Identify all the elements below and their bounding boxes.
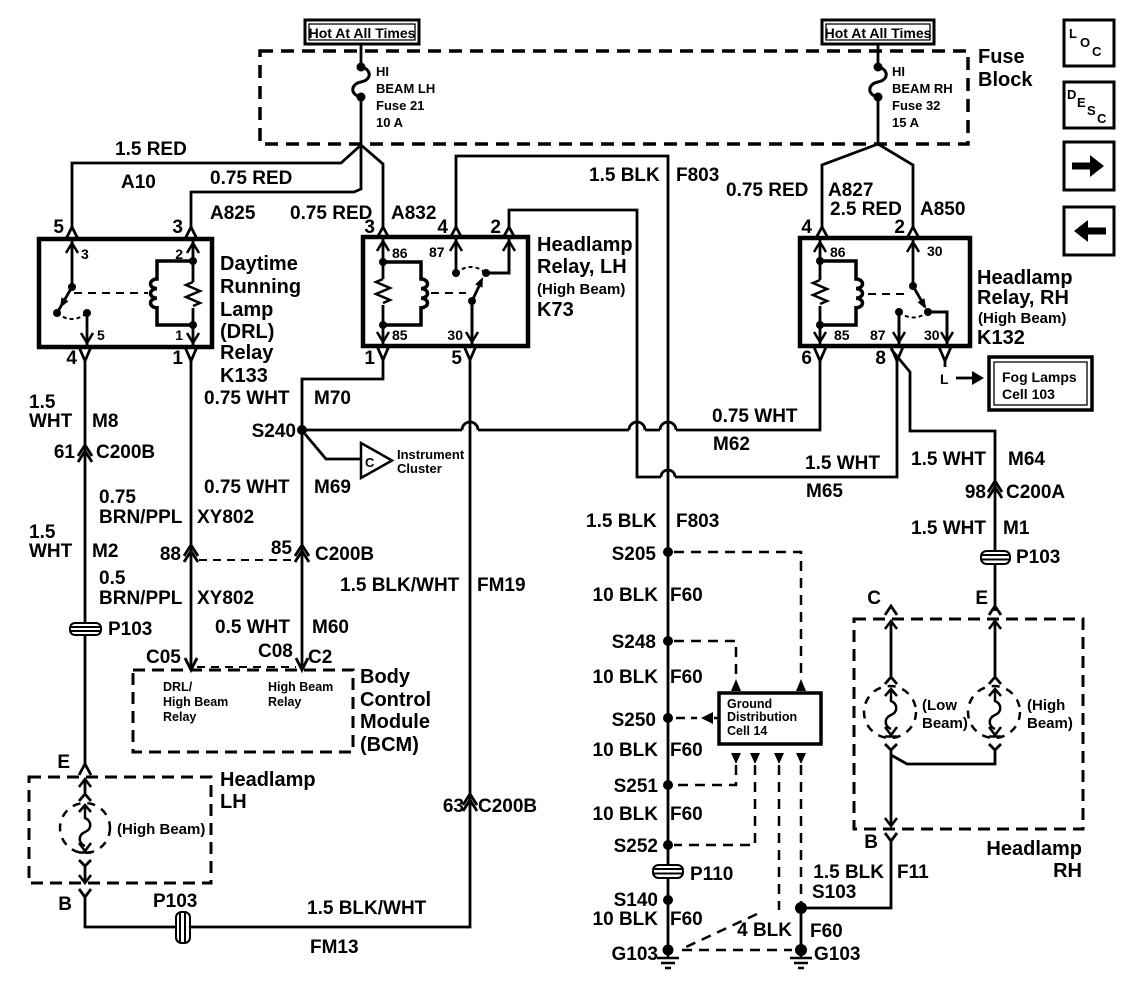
svg-text:C200B: C200B <box>315 544 374 565</box>
svg-text:P103: P103 <box>108 619 152 640</box>
svg-text:10 BLK: 10 BLK <box>593 804 659 825</box>
wire A832 (0.75 RED) to K73 pin 3 <box>361 145 383 227</box>
svg-text:C200B: C200B <box>478 796 537 817</box>
svg-text:P110: P110 <box>690 864 733 885</box>
dashed wire ground dist to S251 <box>674 765 736 785</box>
svg-text:M1: M1 <box>1003 518 1030 539</box>
svg-text:High Beam: High Beam <box>268 680 333 694</box>
svg-text:HI: HI <box>376 64 389 79</box>
svg-text:Distribution: Distribution <box>727 710 797 724</box>
bulb RH high chevron bottom <box>989 744 1001 750</box>
connector C200B pin88 double chevron <box>184 545 198 562</box>
K73 coil branch vertical (86-85) <box>382 239 385 344</box>
dashed wire ground dist to G103 left <box>686 765 779 947</box>
connector C200B pin61 double chevron <box>78 445 92 462</box>
K73 switch output wire pin5 internal <box>471 301 474 344</box>
K73 coil <box>383 262 428 325</box>
svg-text:8: 8 <box>875 348 886 369</box>
node pin6 chevron K132 (bottom) <box>814 347 826 361</box>
svg-text:BRN/PPL: BRN/PPL <box>99 507 183 528</box>
svg-text:FM13: FM13 <box>310 937 359 958</box>
svg-text:C05: C05 <box>146 647 181 668</box>
svg-text:1.5 BLK/WHT: 1.5 BLK/WHT <box>340 575 460 596</box>
node pin2 chevron K132 <box>907 227 919 238</box>
svg-text:K133: K133 <box>220 365 268 387</box>
node S103 <box>795 902 807 914</box>
svg-text:S248: S248 <box>612 632 656 653</box>
label Daytime Running Lamp (DRL) Relay K133 <box>220 253 301 387</box>
K132 switch contacts <box>895 308 903 316</box>
svg-text:1: 1 <box>364 348 375 369</box>
bulb RH low beam: entry wire <box>890 621 893 677</box>
label Body Control Module (BCM) <box>360 666 431 756</box>
svg-text:1.5: 1.5 <box>29 522 56 543</box>
svg-text:1.5 RED: 1.5 RED <box>115 139 187 160</box>
svg-text:F60: F60 <box>810 921 843 942</box>
grommet P103 (left) <box>70 623 101 635</box>
bulb RH low chevron top <box>885 677 897 684</box>
node S248 <box>663 636 673 646</box>
svg-text:A10: A10 <box>121 172 156 193</box>
svg-text:P103: P103 <box>153 891 197 912</box>
wire F803 top (K73 pin4 up and over) <box>456 156 668 950</box>
K133 switch throw arc (dashed) <box>57 313 87 319</box>
node S251 <box>663 780 673 790</box>
svg-text:(High Beam): (High Beam) <box>978 310 1066 327</box>
svg-text:BEAM LH: BEAM LH <box>376 81 435 96</box>
svg-text:Relay: Relay <box>220 342 274 364</box>
svg-text:K73: K73 <box>537 299 574 321</box>
svg-text:Headlamp: Headlamp <box>977 267 1073 289</box>
relay K133 box <box>39 239 212 347</box>
svg-text:0.75 RED: 0.75 RED <box>726 180 808 201</box>
svg-text:0.75 WHT: 0.75 WHT <box>204 477 290 498</box>
wire jumper low-high bulbs <box>891 750 995 764</box>
hop M62 over F803 wire <box>660 422 676 430</box>
svg-text:C2: C2 <box>308 647 332 668</box>
bulb LH exit wire <box>84 866 87 882</box>
svg-text:63: 63 <box>443 796 464 817</box>
node S250 <box>663 713 673 723</box>
dashed wire ground dist to S252 <box>674 765 755 845</box>
svg-text:HI: HI <box>892 64 905 79</box>
K132 switch arm <box>913 286 925 307</box>
K133 external pin number labels <box>53 217 183 369</box>
svg-text:WHT: WHT <box>29 541 73 562</box>
svg-text:(DRL): (DRL) <box>220 321 274 343</box>
svg-text:2.5 RED: 2.5 RED <box>830 199 902 220</box>
svg-text:C: C <box>1097 111 1107 126</box>
svg-text:BEAM RH: BEAM RH <box>892 81 953 96</box>
svg-text:F60: F60 <box>670 804 703 825</box>
bulb RH high filament <box>990 689 1001 729</box>
svg-text:86: 86 <box>830 244 846 260</box>
K73 internal labels 86 85 87 30 <box>392 244 463 343</box>
grommet P103 (FM13, vertical) <box>176 912 190 943</box>
svg-text:2: 2 <box>894 217 905 238</box>
K73 resistor <box>376 279 390 303</box>
svg-text:P103: P103 <box>1016 547 1060 568</box>
svg-text:Lamp: Lamp <box>220 299 273 321</box>
svg-text:4: 4 <box>66 348 77 369</box>
node pin5 chevron K133 <box>66 227 78 239</box>
svg-text:5: 5 <box>97 327 105 343</box>
bulb RH low chevron bottom <box>885 744 897 750</box>
svg-text:O: O <box>1080 35 1090 50</box>
wire K73 pin2 over and down to M65 <box>509 210 897 477</box>
svg-text:98: 98 <box>965 482 986 503</box>
K132 coil branch vertical (86-85) <box>819 240 822 344</box>
svg-text:0.5 WHT: 0.5 WHT <box>215 617 290 638</box>
bulb RH high beam: entry wire <box>994 621 997 677</box>
bulb LH filament <box>80 806 91 846</box>
K132 internal labels 86 85 87 30 30 <box>830 243 943 343</box>
svg-text:Running: Running <box>220 276 301 298</box>
svg-text:Fuse 21: Fuse 21 <box>376 98 424 113</box>
K133 internal pin labels <box>81 246 183 343</box>
wire M62 (0.75 WHT) S240 to K132 pin6 <box>302 361 820 430</box>
svg-text:Headlamp: Headlamp <box>986 838 1082 860</box>
svg-text:1.5 WHT: 1.5 WHT <box>911 449 986 470</box>
node S240 <box>297 425 307 435</box>
dashed link C05-C2 <box>197 666 296 668</box>
fog lamps cell 103 box <box>989 357 1092 410</box>
svg-text:4 BLK: 4 BLK <box>737 920 792 941</box>
node E chevron headlamp LH <box>79 764 91 775</box>
svg-text:E: E <box>975 588 988 609</box>
hot at all times box LH <box>305 20 419 44</box>
svg-text:Block: Block <box>978 69 1033 91</box>
label fuse 32 <box>892 64 953 130</box>
svg-text:4: 4 <box>801 217 812 238</box>
svg-text:Fuse 32: Fuse 32 <box>892 98 940 113</box>
bulb RH low filament <box>886 689 897 729</box>
K133 dashed actuation link <box>74 292 148 294</box>
svg-text:88: 88 <box>160 544 181 565</box>
svg-text:A832: A832 <box>391 203 436 224</box>
svg-text:85: 85 <box>392 327 408 343</box>
ground distribution cell 14 box <box>719 693 821 744</box>
svg-text:10 BLK: 10 BLK <box>593 909 659 930</box>
K73 external pin number labels <box>364 217 501 369</box>
instrument cluster triangle symbol <box>361 443 392 478</box>
K132 external pin number labels <box>801 217 905 369</box>
node C chevron headlamp RH <box>885 606 897 615</box>
svg-text:85: 85 <box>834 327 850 343</box>
svg-text:E: E <box>1077 95 1086 110</box>
svg-text:Fog Lamps: Fog Lamps <box>1002 369 1077 385</box>
svg-text:Body: Body <box>360 666 411 688</box>
svg-text:10 BLK: 10 BLK <box>593 585 659 606</box>
wire to instrument cluster <box>305 434 361 459</box>
node pin2 chevron K73 <box>503 227 515 238</box>
svg-text:High Beam: High Beam <box>163 695 228 709</box>
bulb RH high circle <box>968 686 1020 738</box>
svg-text:M60: M60 <box>312 617 349 638</box>
svg-text:(High: (High <box>1027 697 1065 714</box>
dashed ground link G103-G103 <box>682 949 792 952</box>
svg-text:F60: F60 <box>670 740 703 761</box>
svg-text:61: 61 <box>54 442 76 463</box>
svg-text:BRN/PPL: BRN/PPL <box>99 588 183 609</box>
svg-text:G103: G103 <box>814 944 860 965</box>
wire pin8 branch to M64 <box>891 349 995 611</box>
wire FM13 (1.5 BLK/WHT) headlamp LH B to K73 pin5 <box>85 361 470 927</box>
wire M8/M2 (1.5 WHT) K133 pin4 down to headlamp LH E <box>84 361 87 767</box>
relay K132 box <box>800 238 970 346</box>
svg-text:0.75: 0.75 <box>99 487 136 508</box>
svg-text:S103: S103 <box>812 882 856 903</box>
bulb RH low exit wire to B <box>890 750 893 825</box>
K73 switch common wire pin4 internal <box>455 239 458 273</box>
svg-text:FM19: FM19 <box>477 575 526 596</box>
svg-text:B: B <box>864 832 878 853</box>
svg-text:C: C <box>867 588 881 609</box>
K133 switch arm <box>57 287 72 313</box>
node S252 <box>663 840 673 850</box>
label (Low Beam) <box>922 697 968 732</box>
svg-text:(High Beam): (High Beam) <box>117 821 205 838</box>
svg-text:M69: M69 <box>314 477 351 498</box>
svg-text:1.5: 1.5 <box>29 392 56 413</box>
label (High Beam) RH <box>1027 697 1073 732</box>
svg-text:F803: F803 <box>676 511 719 532</box>
svg-text:S250: S250 <box>612 710 656 731</box>
K132 switch common wire pin2 internal <box>912 240 915 286</box>
svg-text:Instrument: Instrument <box>397 447 465 462</box>
svg-text:F60: F60 <box>670 585 703 606</box>
node S205 <box>663 547 673 557</box>
svg-text:0.75 RED: 0.75 RED <box>290 203 372 224</box>
svg-text:0.75 WHT: 0.75 WHT <box>204 388 290 409</box>
node pin1 chevron K133 (bottom) <box>185 347 197 361</box>
node pin3 chevron K73 <box>377 227 389 238</box>
relay K73 box <box>363 237 528 346</box>
fuse F21 (HI BEAM LH Fuse 21) <box>353 63 370 102</box>
svg-text:1.5 WHT: 1.5 WHT <box>805 453 880 474</box>
K73 switch arm <box>472 282 481 301</box>
svg-text:5: 5 <box>451 348 462 369</box>
svg-text:DRL/: DRL/ <box>163 680 193 694</box>
wire A850 (2.5 RED) to K132 pin 2 <box>878 144 913 227</box>
node pin1 chevron K73 (bottom) <box>377 346 389 360</box>
node pin8 chevron K132 (bottom, X) <box>891 347 903 361</box>
svg-text:Ground: Ground <box>727 697 772 711</box>
label fuse block <box>978 46 1033 91</box>
connector C200B pin63 double chevron <box>463 794 477 811</box>
node C2 chevron into BCM <box>296 658 308 670</box>
svg-text:Control: Control <box>360 689 431 711</box>
svg-text:XY802: XY802 <box>197 588 254 609</box>
K73 switch throw arc (dashed) <box>456 267 486 273</box>
node E chevron headlamp RH <box>989 606 1001 615</box>
bulb RH low circle <box>864 686 916 738</box>
label BCM internals <box>163 680 333 724</box>
svg-text:0.5: 0.5 <box>99 568 126 589</box>
label Headlamp Relay RH K132 <box>977 267 1073 349</box>
dashed connector link C200B <box>199 559 294 561</box>
svg-text:Module: Module <box>360 711 430 733</box>
svg-text:3: 3 <box>81 246 89 262</box>
svg-text:K132: K132 <box>977 327 1025 349</box>
svg-text:M64: M64 <box>1008 449 1045 470</box>
node pin3 chevron K133 <box>185 227 197 239</box>
K132 switch throw arc (dashed) <box>899 312 928 318</box>
svg-text:Hot At All Times: Hot At All Times <box>309 25 416 41</box>
K73 dashed actuation link <box>431 292 466 294</box>
bulb LH high beam: entry wire <box>84 779 87 793</box>
node pinY chevron K132 (bottom) <box>939 347 951 367</box>
wire A827 (0.75 RED) to K132 pin 4 <box>822 144 878 227</box>
fuse block dashed box <box>260 51 968 144</box>
svg-text:3: 3 <box>172 217 183 238</box>
svg-text:Cluster: Cluster <box>397 461 442 476</box>
label Headlamp RH <box>986 838 1082 882</box>
svg-text:A827: A827 <box>828 180 873 201</box>
svg-text:(High Beam): (High Beam) <box>537 281 625 298</box>
dashed arrow ground dist to S250 <box>676 717 719 720</box>
svg-text:S: S <box>1087 103 1096 118</box>
svg-text:A850: A850 <box>920 199 965 220</box>
node S140 <box>663 895 673 905</box>
svg-text:B: B <box>58 894 72 915</box>
wire XY802 (BRN/PPL) K133 pin1 down to BCM C05 <box>190 361 193 667</box>
label Headlamp Relay LH K73 <box>537 234 633 321</box>
svg-text:S252: S252 <box>614 836 658 857</box>
wire fuse 21 to junction <box>360 97 363 145</box>
wire from hot box RH to fuse 32 <box>877 44 880 67</box>
svg-text:3: 3 <box>364 217 375 238</box>
svg-text:10 BLK: 10 BLK <box>593 667 659 688</box>
node B chevron headlamp LH <box>79 889 91 897</box>
headlamp RH dashed box <box>854 619 1083 829</box>
svg-text:C: C <box>1092 44 1102 59</box>
right arrow legend box <box>1064 142 1114 190</box>
svg-text:Daytime: Daytime <box>220 253 298 275</box>
K132 resistor <box>813 280 827 304</box>
svg-text:15 A: 15 A <box>892 115 920 130</box>
svg-text:M65: M65 <box>806 481 843 502</box>
svg-text:30: 30 <box>924 327 940 343</box>
fuse F32 (HI BEAM RH Fuse 32) <box>870 63 887 102</box>
bulb LH chevron bottom <box>79 860 91 866</box>
svg-text:Beam): Beam) <box>922 715 968 732</box>
svg-text:2: 2 <box>490 217 501 238</box>
svg-text:(BCM): (BCM) <box>360 734 419 756</box>
wire fuse 32 to junction <box>877 97 880 144</box>
svg-text:C200B: C200B <box>96 442 155 463</box>
grommet P103 (RH) <box>981 551 1010 564</box>
svg-text:C200A: C200A <box>1006 482 1065 503</box>
K133 resistor <box>186 282 200 306</box>
ground G103 left <box>657 945 679 969</box>
LOC legend box <box>1064 20 1114 66</box>
svg-text:C08: C08 <box>258 641 293 662</box>
svg-text:(Low: (Low <box>922 697 957 714</box>
label Headlamp LH <box>220 769 316 813</box>
K133 coil <box>151 261 194 325</box>
svg-text:M70: M70 <box>314 388 351 409</box>
dashed wire S205 to ground dist <box>674 552 801 678</box>
svg-text:1.5 BLK: 1.5 BLK <box>586 511 657 532</box>
svg-text:S205: S205 <box>612 544 657 565</box>
svg-text:D: D <box>1067 87 1076 102</box>
label fog lamps cell 103 <box>1002 369 1077 402</box>
grommet P110 <box>653 865 683 878</box>
svg-text:0.75 WHT: 0.75 WHT <box>712 406 798 427</box>
BCM dashed box <box>133 670 353 752</box>
dashed wire ground dist to S103 <box>800 765 803 903</box>
svg-text:30: 30 <box>927 243 943 259</box>
svg-text:Fuse: Fuse <box>978 46 1025 68</box>
svg-text:F60: F60 <box>670 909 703 930</box>
svg-text:6: 6 <box>801 348 812 369</box>
hop of M65 over F803 <box>661 470 675 477</box>
K133 switch fixed wire pin3 internal <box>71 241 74 287</box>
connector C200A pin98 double chevron <box>988 481 1002 498</box>
K133 coil branch vertical (pin3-pin1) <box>192 241 195 345</box>
svg-text:E: E <box>57 752 70 773</box>
ground G103 right <box>790 944 812 968</box>
svg-text:Headlamp: Headlamp <box>220 769 316 791</box>
svg-text:1.5 BLK: 1.5 BLK <box>589 165 660 186</box>
svg-text:1: 1 <box>172 348 183 369</box>
left arrow legend box <box>1064 207 1114 255</box>
svg-text:S140: S140 <box>614 890 658 911</box>
svg-text:WHT: WHT <box>29 411 73 432</box>
svg-text:86: 86 <box>392 245 408 261</box>
svg-text:M8: M8 <box>92 411 118 432</box>
svg-text:Beam): Beam) <box>1027 715 1073 732</box>
dashed wire S248 to ground dist <box>674 641 736 678</box>
node pin4 chevron K133 (bottom) <box>79 347 91 361</box>
K132 dashed actuation link <box>868 293 908 295</box>
svg-text:RH: RH <box>1053 860 1082 882</box>
DESC legend box <box>1064 82 1114 128</box>
label ground distribution cell 14 <box>727 697 797 738</box>
svg-text:10 BLK: 10 BLK <box>593 740 659 761</box>
hop M62 over FM19 wire <box>462 422 478 430</box>
svg-text:L: L <box>940 371 949 387</box>
svg-text:Relay: Relay <box>268 695 301 709</box>
label instrument cluster <box>397 447 465 476</box>
headlamp LH dashed box <box>29 777 211 883</box>
arrow to fog lamps <box>956 377 972 380</box>
svg-text:LH: LH <box>220 791 247 813</box>
svg-text:F803: F803 <box>676 165 719 186</box>
svg-text:S251: S251 <box>614 776 659 797</box>
svg-text:M2: M2 <box>92 541 118 562</box>
svg-text:0.75 RED: 0.75 RED <box>210 168 292 189</box>
bulb LH chevron top <box>79 794 91 801</box>
label fuse 21 <box>376 64 435 130</box>
K133 switch output wire pin5 internal <box>86 313 89 345</box>
svg-text:C: C <box>365 455 375 470</box>
svg-text:G103: G103 <box>612 944 658 965</box>
K132 contact to pin Y internal <box>928 312 947 344</box>
wire M70 (0.75 WHT) K73 pin1 to S240 <box>302 361 383 430</box>
bulb RH high chevron top <box>989 677 1001 684</box>
wire M69/M60 S240 down to BCM C2 <box>301 430 304 667</box>
node pin4 chevron K73 <box>450 227 462 238</box>
node C05 chevron into BCM <box>185 658 197 670</box>
node B chevron headlamp RH <box>885 833 897 841</box>
svg-text:Cell 103: Cell 103 <box>1002 386 1055 402</box>
wire from hot box LH to fuse 21 <box>360 44 363 67</box>
hop M62 over K73pin2 wire <box>629 422 645 430</box>
bulb LH circle <box>60 803 110 853</box>
svg-text:87: 87 <box>429 244 445 260</box>
